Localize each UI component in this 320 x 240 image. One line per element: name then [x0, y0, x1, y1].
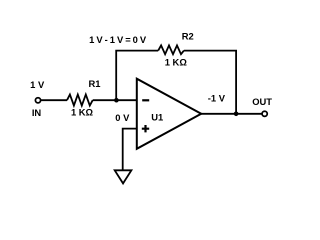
svg-text:-1 V: -1 V	[208, 92, 226, 103]
svg-text:R2: R2	[182, 30, 194, 41]
svg-text:OUT: OUT	[252, 96, 272, 107]
svg-text:1 V: 1 V	[30, 79, 45, 90]
svg-text:1 KΩ: 1 KΩ	[71, 107, 94, 118]
svg-text:R1: R1	[89, 78, 101, 89]
svg-text:U1: U1	[151, 111, 163, 122]
svg-text:IN: IN	[32, 107, 42, 118]
svg-text:1 KΩ: 1 KΩ	[165, 56, 188, 67]
svg-text:0 V: 0 V	[115, 112, 130, 123]
svg-text:1 V - 1 V = 0 V: 1 V - 1 V = 0 V	[89, 34, 147, 45]
